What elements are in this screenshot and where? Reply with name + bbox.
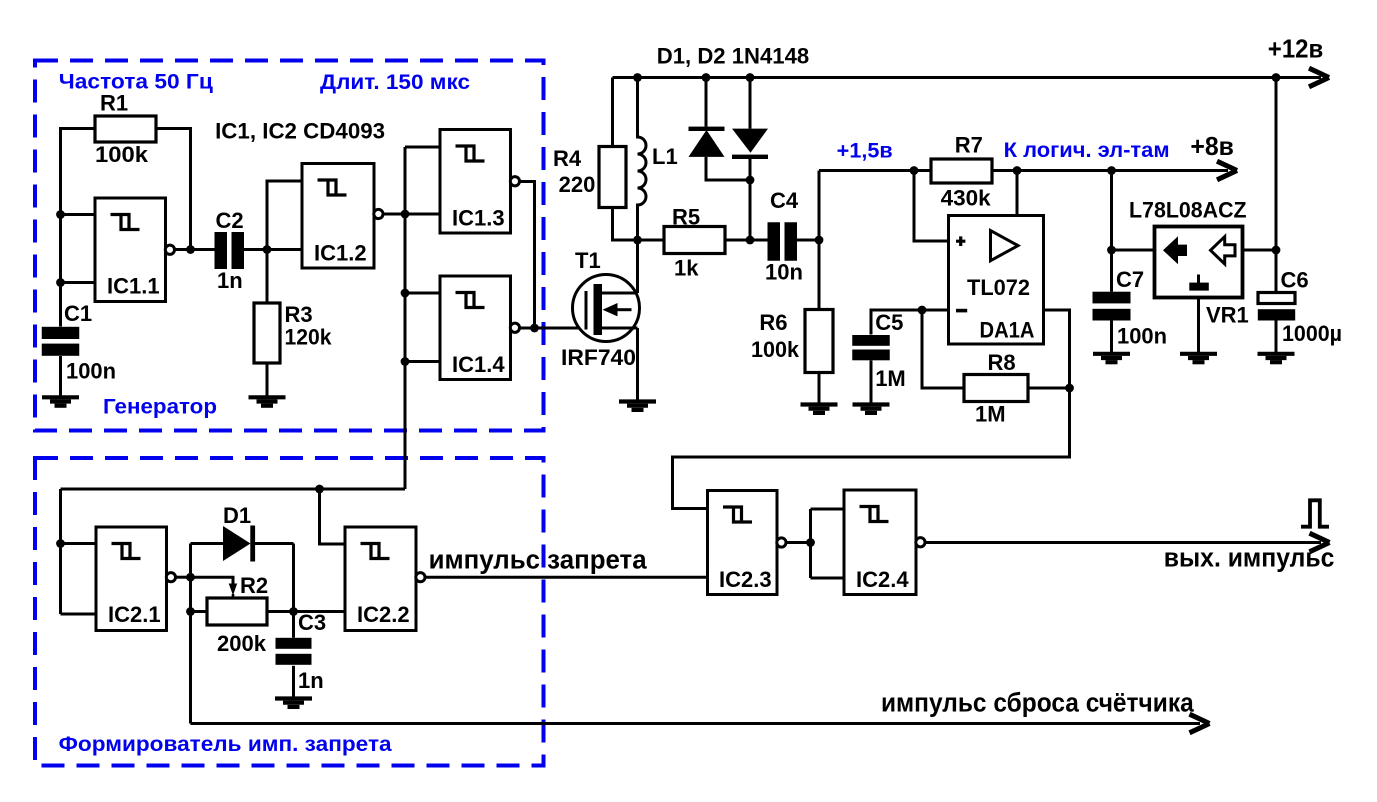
wire R4 top [611,78,614,147]
wire VR1 left lead [1112,249,1155,252]
node R5/D2/C4 [746,236,755,245]
svg-text:R7: R7 [955,133,983,158]
svg-text:IC1.4: IC1.4 [452,352,505,377]
svg-text:IC1, IC2 CD4093: IC1, IC2 CD4093 [215,119,385,144]
node lower rail / IC2.1 in A [56,539,65,548]
wire IC2.4 input bridge [811,509,845,578]
node R2 left [186,607,195,616]
Schmitt NAND gate IC1.3 [440,130,520,234]
node C2 / R3 / IC1.2 in [263,245,272,254]
wire IC1.2 output to node [382,213,405,216]
node rail/D1 [702,73,711,82]
node rail/op-amp + input [910,166,919,175]
svg-text:100k: 100k [751,337,800,362]
svg-text:C6: C6 [1281,268,1309,293]
wire R2 right to IC2.2 in B [267,610,345,613]
svg-text:вых. импульс: вых. импульс [1164,543,1335,573]
wire T1 drain [636,240,639,293]
svg-text:C1: C1 [64,301,92,326]
resistor R6 body [805,310,833,373]
potentiometer R2 wiper arrow [229,584,238,596]
wire R6 to ground [818,373,821,404]
node +12v/VR1 branch [1272,73,1281,82]
resistor R8 body [964,375,1028,402]
Schmitt NAND gate IC2.3 [708,491,787,595]
wire IC1.4 output to T1 gate [519,327,586,330]
wire to D1 anode [191,542,224,545]
wire C7 to ground [1110,321,1113,353]
svg-text:DA1A: DA1A [980,318,1035,343]
wire IC1.2 input riser / R3 top [267,181,302,303]
resistor R4 body [599,147,626,208]
wire C5 to ground [870,360,873,403]
svg-text:220: 220 [559,172,596,197]
inductor L1 [638,78,647,294]
node VR1 out / C7 [1107,246,1116,255]
svg-text:T1: T1 [575,248,601,273]
svg-text:IC2.3: IC2.3 [719,567,772,592]
svg-text:1M: 1M [975,402,1006,427]
node IC1.3+IC1.4 outputs join [530,324,539,333]
wire +1.5v rail left [819,169,931,172]
node bus / IC2.2 branch [315,485,324,494]
wire IC1.3 input B [405,213,440,216]
wire C1 to ground [59,356,62,396]
wire IC1.1 input B [61,281,96,284]
Schmitt NAND gate IC2.1 [96,527,175,631]
resistor R2 body [207,598,267,625]
resistor R3 body [254,303,280,363]
wire импульс запрета wire [425,576,708,579]
wire T1 source to ground [636,328,639,400]
svg-text:VR1: VR1 [1206,303,1249,328]
wire VR1 right lead [1243,249,1277,252]
node D1/D2 junction [746,176,755,185]
Schmitt NAND gate IC2.4 [844,490,925,595]
wire regulator in from +12v [1275,78,1278,293]
node bus / IC1.4 in B [401,357,410,366]
svg-text:IC1.1: IC1.1 [107,274,160,299]
node bus / IC1.4 in A [401,289,410,298]
node minus input junction [918,306,927,315]
resistor R1 body [95,116,156,142]
node rail/R7 right [1013,166,1022,175]
node rail/R4 [633,73,642,82]
pulse waveform symbol [1301,500,1329,526]
wire +1.5v riser / R6 top [818,171,821,310]
svg-text:430k: 430k [941,186,992,211]
ground under VR1 [1180,354,1217,362]
wire +12v rail [613,76,1322,79]
svg-text:R3: R3 [285,302,313,327]
arrowhead +12v [1309,68,1329,87]
wire IC2.2 top input drop [320,489,346,544]
capacitor C1 plates [42,327,80,339]
svg-text:IRF740: IRF740 [561,345,636,370]
wire IC1.4 input A [405,292,440,295]
ground under C6 [1258,354,1295,362]
svg-text:L1: L1 [652,144,678,169]
svg-text:IC1.3: IC1.3 [452,206,505,231]
node R1/IC1.1 in B [56,278,65,287]
arrowhead импульс сброса [1190,714,1210,733]
svg-text:L78L08ACZ: L78L08ACZ [1129,198,1247,223]
block frame: формирователь имп. запрета [35,458,544,766]
wire R1 right to IC1.1 output node [156,129,191,250]
svg-text:IC2.4: IC2.4 [856,567,909,592]
op-amp U DA1A TL072 [949,216,1044,345]
wire R4 bottom to node [613,208,638,241]
svg-text:R1: R1 [100,91,128,116]
svg-text:К логич. эл-там: К логич. эл-там [1004,139,1170,162]
ground under R3 [249,397,286,405]
Schmitt NAND gate IC2.2 [345,527,425,631]
wire D1 top [705,78,708,127]
resistor R5 body [664,227,725,254]
svg-text:Формирователь имп. запрета: Формирователь имп. запрета [59,733,392,756]
svg-text:+8в: +8в [1190,131,1234,161]
wire D1 cathode to R2 right node [255,544,294,638]
ground under C5 [853,405,890,413]
node rail/D2 [746,73,755,82]
wire IC2.1 input B [61,613,97,616]
svg-text:D1, D2 1N4148: D1, D2 1N4148 [657,44,809,69]
node R4/L1/R5/drain junction [633,236,642,245]
node C4/R6 junction [815,236,824,245]
wire IC1.3 output down to gate node [519,182,535,329]
capacitor C5 plates [852,335,890,346]
wire wiper feed [191,577,234,584]
wire VR1 out riser / C7 [1110,171,1113,292]
capacitor C3 plates [276,638,312,649]
svg-text:100n: 100n [66,359,116,384]
svg-text:Частота 50 Гц: Частота 50 Гц [59,71,213,94]
arrowhead вых. импульс [1310,533,1330,552]
resistor R7 body [931,159,992,183]
svg-text:C7: C7 [1116,267,1144,292]
svg-text:100k: 100k [95,142,149,167]
wire + input [914,171,949,242]
svg-text:100n: 100n [1117,324,1167,349]
wire IC2.1 input A [61,542,97,545]
svg-text:IC1.2: IC1.2 [314,241,367,266]
wire output pulse wire [925,541,1321,544]
wire +1.5v rail right to +8v arrow [992,169,1228,172]
ground under C7 [1093,354,1130,362]
wire C6 to ground [1275,321,1278,353]
node R2/C3/IC2.2 [289,607,298,616]
node R8/output riser [1065,384,1074,393]
wire bus to lower block [61,488,406,491]
svg-text:R8: R8 [988,350,1016,375]
svg-text:C3: C3 [298,610,326,635]
svg-text:+12в: +12в [1268,34,1324,64]
node IC2.1 out [186,573,195,582]
diode D1 (shaper) [223,526,251,561]
wire D2 bottom [749,159,752,240]
wire IC2.1 out to node [175,576,191,579]
wire R3 to ground [266,363,269,396]
svg-text:IC2.1: IC2.1 [108,602,161,627]
svg-text:R4: R4 [553,146,582,171]
svg-text:D1: D1 [223,503,251,528]
wire IC1.1 output to C2 [174,248,215,251]
wire reset rail [191,722,1201,725]
wire IC1.3/IC1.4 input bus vertical [404,147,407,489]
wire - input [922,309,949,312]
wire left rail to C1 / R1 left [61,129,96,327]
wire node to R5 [638,239,665,242]
svg-text:1000µ: 1000µ [1282,321,1342,346]
wire IC1.1 input A [61,213,96,216]
wire C4 to +1.5v rail [797,239,819,242]
svg-text:1n: 1n [298,668,324,693]
transistor T1 IRF740 (N-MOSFET) [573,275,640,342]
ground under T1 [619,402,656,410]
svg-text:R2: R2 [240,573,268,598]
wire R7 to op-amp top [1016,171,1019,216]
wire IC1.3 input A [405,146,440,149]
arrowhead +8v [1217,161,1237,180]
wire D2 top [749,78,752,129]
node VR1 in [1272,246,1281,255]
wire C2 to IC1.2 [244,248,303,251]
svg-text:IC2.2: IC2.2 [357,602,410,627]
wire op-amp out to IC2.3 [673,310,1070,509]
regulator VR1 L78L08ACZ [1155,227,1243,298]
svg-text:1n: 1n [217,268,243,293]
capacitor C7 plates [1093,292,1131,304]
svg-text:120k: 120k [285,325,333,350]
wire D1 bottom to D2 [706,157,750,180]
svg-text:импульс сброса счётчика: импульс сброса счётчика [881,688,1195,718]
capacitor C4 plates [768,222,781,261]
wire R5 to C4 [725,239,768,242]
svg-text:Генератор: Генератор [103,396,217,419]
svg-text:+1,5в: +1,5в [837,140,893,163]
svg-text:R5: R5 [672,205,700,230]
node IC2.3 out split [806,538,815,547]
wire lower left rail [59,489,62,614]
svg-text:TL072: TL072 [967,275,1030,300]
svg-text:C2: C2 [216,208,244,233]
ground under C1 [42,397,79,405]
Schmitt NAND gate IC1.4 [440,276,520,380]
node IC1.1 out / R1 right [186,245,195,254]
wire IC1.4 input B [405,360,440,363]
svg-text:C5: C5 [875,310,903,335]
svg-text:1M: 1M [875,366,906,391]
ground under R6 [801,405,838,413]
node R1/IC1.1 in A [56,210,65,219]
wire - to C5 [871,310,922,335]
svg-text:200k: 200k [217,631,267,656]
capacitor C6 (electrolytic) plates [1258,293,1295,304]
svg-text:импульс запрета: импульс запрета [429,545,648,575]
svg-text:10n: 10n [765,260,803,285]
svg-text:C4: C4 [770,188,799,213]
node bus / IC1.2 out [401,210,410,219]
wire - to R8 left [922,310,964,388]
block frame: generator (Частота 50 Гц / Длит. 150 мкс) [35,61,544,431]
wire VR1 gnd pin [1197,298,1200,353]
wire C3 to ground [292,666,295,697]
Schmitt NAND gate IC1.1 [95,198,174,302]
wire R8 right [1028,387,1070,390]
wire IC2.3 out [786,541,811,544]
wire R2 left lead [191,610,208,613]
svg-text:Длит. 150 мкс: Длит. 150 мкс [320,71,470,94]
node rail/regulator out [1107,166,1116,175]
svg-text:1k: 1k [674,256,699,281]
capacitor C2 plates [215,232,228,269]
Schmitt NAND gate IC1.2 [302,164,383,269]
wire IC2.1 out riser [189,544,192,724]
ground under C3 [275,699,312,707]
svg-text:R6: R6 [759,310,787,335]
